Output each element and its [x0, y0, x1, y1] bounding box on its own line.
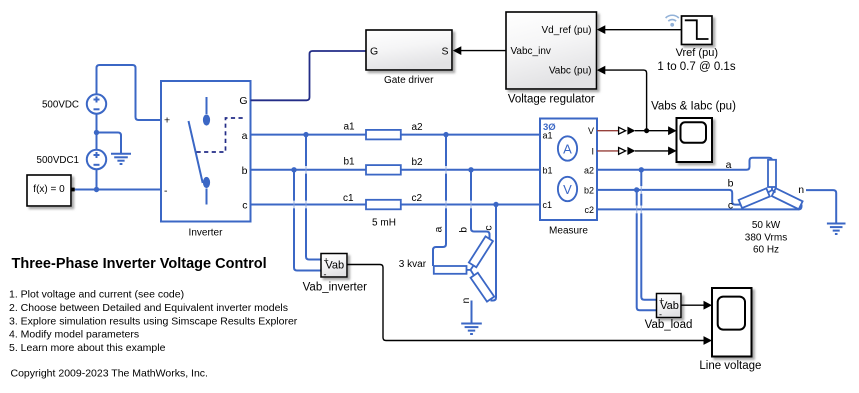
- voltage source 500VDC: [87, 94, 106, 113]
- wire: Vab_inverter output to Line voltage scope lower input: [347, 265, 704, 341]
- svg-text:Vab: Vab: [325, 260, 344, 272]
- svg-text:V: V: [563, 182, 572, 197]
- svg-text:3 kvar: 3 kvar: [399, 259, 427, 270]
- wire: Vab_load output to Line voltage scope upper input: [681, 304, 704, 306]
- svg-text:f(x) = 0: f(x) = 0: [33, 184, 65, 195]
- wire: V signal to scope: [635, 130, 669, 132]
- resistor branch c of 3 kvar load: [471, 273, 495, 302]
- measurement block Measure body: [540, 119, 597, 221]
- wire: phase c from inductor Lc to Measure c1: [401, 204, 540, 206]
- solid arrow on I signal: [627, 147, 635, 155]
- wire: between source V1 and V2: [96, 114, 98, 150]
- wire: neutral of 3 kvar load to ground: [471, 301, 473, 323]
- svg-text:a: a: [242, 130, 248, 142]
- svg-text:1 to 0.7 @ 0.1s: 1 to 0.7 @ 0.1s: [657, 61, 735, 73]
- svg-text:a2: a2: [584, 165, 594, 175]
- converter triangle on I signal: [619, 148, 626, 155]
- svg-text:5. Learn more about this examp: 5. Learn more about this example: [9, 342, 166, 354]
- svg-text:-: -: [164, 185, 168, 197]
- svg-text:Vref (pu): Vref (pu): [676, 47, 718, 59]
- wire: V signal branch up to Voltage regulator Vabc input: [605, 70, 647, 131]
- junction on phase c feeding 3 kvar load: [493, 202, 498, 207]
- wire: phase a from inverter to inductor La: [251, 134, 367, 136]
- solver configuration block f(x)=0: [27, 175, 75, 206]
- svg-text:a: a: [433, 227, 445, 233]
- svg-text:+: +: [164, 115, 170, 127]
- wireless logging badge on Vref: [666, 15, 679, 26]
- svg-text:380 Vrms: 380 Vrms: [745, 232, 787, 243]
- wire: phase b from inductor Lb to Measure b1: [401, 169, 540, 171]
- svg-text:Voltage regulator: Voltage regulator: [508, 94, 595, 106]
- junction on phase b feeding 3 kvar load: [468, 167, 473, 172]
- wire: I signal to scope: [635, 150, 669, 152]
- junction on V signal: [644, 128, 649, 133]
- subsystem Voltage regulator: [506, 12, 597, 89]
- inductor La: [366, 130, 401, 140]
- voltage measurement block Vab_load: [657, 294, 682, 320]
- resistor branch c of 50 kW load: [772, 188, 803, 209]
- step source block Vref: [682, 16, 713, 45]
- junction on phase a feeding Vab_inverter: [303, 132, 308, 137]
- wire: phase b from inverter to inductor Lb: [251, 169, 367, 171]
- svg-text:b2: b2: [412, 157, 424, 168]
- scope block Vabs & Iabc (pu): [677, 118, 713, 162]
- inductor Lb: [366, 165, 401, 175]
- wire: phase c2 from Measure to 50 kW load terminal c: [597, 205, 802, 210]
- wire: Vabc_inv from Voltage regulator to Gate driver: [461, 50, 506, 52]
- svg-text:4. Modify model parameters: 4. Modify model parameters: [9, 329, 139, 341]
- svg-text:b1: b1: [344, 157, 356, 168]
- svg-text:I: I: [591, 146, 594, 156]
- scope block Line voltage: [712, 288, 752, 357]
- svg-text:G: G: [370, 46, 378, 58]
- svg-text:b2: b2: [584, 185, 594, 195]
- svg-text:Vab_inverter: Vab_inverter: [303, 282, 368, 294]
- svg-text:Copyright 2009-2023 The MathWo: Copyright 2009-2023 The MathWorks, Inc.: [11, 367, 208, 379]
- svg-text:b: b: [458, 227, 470, 233]
- wire: phase a from inductor La to Measure a1: [401, 134, 540, 136]
- crossover haze marks left drops: [294, 166, 306, 208]
- solid arrow on V signal: [627, 127, 635, 135]
- svg-text:A: A: [563, 141, 572, 156]
- wire: from solver block to Inverter - port: [74, 189, 161, 191]
- wire: neutral of 50 kW load to ground: [806, 190, 836, 223]
- svg-text:Vabc_inv: Vabc_inv: [511, 46, 551, 57]
- wire: drop from phase c to 3 kvar load terminal c: [491, 205, 497, 301]
- svg-text:Vd_ref (pu): Vd_ref (pu): [541, 25, 591, 36]
- wire: drop from phase a to 3 kvar load terminal a with hops: [433, 135, 446, 266]
- svg-text:5 mH: 5 mH: [372, 218, 396, 229]
- voltage measurement block Vab_inverter: [321, 254, 347, 280]
- wire: top loop from 500VDC + terminal to Inverter + port: [97, 65, 162, 120]
- input arrow into Line voltage lower port: [704, 336, 713, 345]
- svg-text:c: c: [242, 200, 247, 212]
- junction node between sources: [94, 130, 99, 135]
- star point joints of 50 kW load: [769, 187, 776, 193]
- svg-text:60 Hz: 60 Hz: [753, 245, 779, 256]
- inverter switch symbol: [189, 97, 211, 205]
- svg-text:c2: c2: [412, 193, 423, 204]
- svg-text:n: n: [460, 298, 472, 304]
- input arrow into Gate driver S port: [453, 46, 462, 55]
- svg-text:Vab: Vab: [660, 300, 679, 312]
- junction on phase b2 feeding Vab_load: [634, 187, 639, 192]
- junction on phase b feeding Vab_inverter: [291, 167, 296, 172]
- svg-text:500VDC1: 500VDC1: [37, 155, 79, 166]
- physical signal V from Measure: [597, 130, 618, 132]
- junction on phase a2 feeding Vab_load: [639, 167, 644, 172]
- input arrow into Voltage regulator Vabc port: [597, 66, 606, 75]
- wire: drop from phase b2 to Vab_load - with hop: [637, 190, 657, 310]
- svg-text:n: n: [798, 184, 804, 196]
- svg-text:c: c: [728, 199, 733, 211]
- svg-text:Measure: Measure: [549, 226, 588, 237]
- ground G3 below 50 kW load neutral: [827, 224, 846, 235]
- ground G1: [111, 154, 131, 164]
- junction node on negative bus: [94, 187, 99, 192]
- wire: stub to ground G1: [97, 133, 122, 154]
- inverter block U1 body: [161, 81, 251, 222]
- resistor branch b of 3 kvar load: [469, 236, 493, 267]
- subsystem Gate driver: [366, 30, 452, 70]
- ammeter A inside Measure: [558, 136, 577, 160]
- svg-text:50 kW: 50 kW: [752, 220, 781, 231]
- wire: G gate signal from inverter to Gate driver: [251, 51, 367, 100]
- dashed gate control line inside inverter: [197, 118, 244, 152]
- svg-text:b: b: [728, 178, 734, 190]
- wire: below 500VDC1 down to DC bus negative: [96, 170, 98, 190]
- voltmeter V inside Measure: [558, 177, 577, 201]
- resistor branch b of 50 kW load: [739, 188, 770, 208]
- svg-text:Line voltage: Line voltage: [699, 360, 761, 372]
- voltage source 500VDC1: [87, 150, 106, 169]
- svg-text:Vabs & Iabc (pu): Vabs & Iabc (pu): [651, 100, 736, 112]
- svg-text:S: S: [441, 46, 448, 58]
- svg-text:a1: a1: [344, 121, 356, 132]
- wire: drop from phase a2 to Vab_load + with hops: [641, 170, 656, 300]
- svg-text:c: c: [483, 225, 495, 230]
- crossover haze marks right drops: [637, 186, 642, 213]
- svg-text:c2: c2: [584, 205, 594, 215]
- svg-text:Three-Phase Inverter Voltage C: Three-Phase Inverter Voltage Control: [12, 256, 267, 272]
- svg-text:Inverter: Inverter: [189, 228, 224, 239]
- wire: drop from phase b to 3 kvar load terminal b with hop: [471, 170, 490, 240]
- input arrow into scope V port: [668, 126, 677, 135]
- wire: Vref step source to Vd_ref input: [605, 29, 682, 31]
- svg-text:500VDC: 500VDC: [42, 100, 79, 111]
- junction on phase a feeding 3 kvar load: [443, 132, 448, 137]
- converter triangle on V signal: [619, 127, 626, 134]
- svg-text:3. Explore simulation results: 3. Explore simulation results using Sims…: [9, 315, 298, 327]
- svg-text:c1: c1: [343, 193, 354, 204]
- svg-text:b: b: [242, 165, 248, 177]
- svg-text:Vabc (pu): Vabc (pu): [549, 66, 592, 77]
- ground G2 below 3 kvar load: [461, 324, 482, 335]
- svg-text:V: V: [588, 126, 594, 136]
- svg-text:1. Plot voltage and current (s: 1. Plot voltage and current (see code): [9, 288, 184, 300]
- svg-text:c1: c1: [543, 200, 553, 210]
- star point joints of 3 kvar load: [467, 266, 475, 276]
- wire: drop from phase b to Vab_inverter - with crossover hop: [294, 170, 321, 271]
- resistor branch a of 3 kvar load: [434, 266, 467, 274]
- wire: phase c from inverter to inductor Lc: [251, 204, 367, 206]
- crossover haze marks 3 kvar drops: [446, 166, 471, 208]
- svg-text:Gate driver: Gate driver: [384, 75, 434, 86]
- svg-text:G: G: [239, 95, 247, 107]
- svg-text:-: -: [324, 270, 327, 280]
- svg-text:a2: a2: [412, 122, 424, 133]
- physical signal I from Measure: [597, 150, 618, 152]
- wire: phase b2 from Measure to 50 kW load terminal b: [597, 190, 741, 205]
- svg-text:a1: a1: [543, 130, 553, 140]
- svg-text:Vab_load: Vab_load: [645, 319, 693, 331]
- resistor branch a of 50 kW load: [768, 160, 776, 187]
- svg-text:2. Choose between Detailed and: 2. Choose between Detailed and Equivalen…: [9, 302, 288, 314]
- svg-text:b1: b1: [543, 165, 553, 175]
- wire: drop from phase a to Vab_inverter + with crossover hops: [306, 135, 321, 260]
- input arrow into Voltage regulator Vd_ref port: [597, 25, 606, 34]
- inductor Lc: [366, 200, 401, 210]
- wire: phase a2 from Measure to 50 kW load terminal a: [597, 158, 772, 170]
- input arrow into scope I port: [668, 147, 677, 156]
- svg-text:a: a: [726, 159, 732, 171]
- input arrow into Line voltage upper port: [704, 301, 713, 310]
